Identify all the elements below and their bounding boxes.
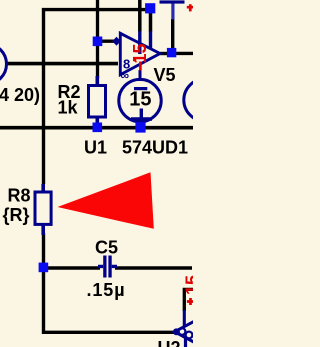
junction squares [39, 3, 177, 272]
V5 minus bar [134, 87, 147, 90]
U1 negative supply lead [139, 70, 142, 81]
svg-text:C5: C5 [95, 237, 118, 257]
wire op-amp output [160, 52, 168, 55]
U1 red pin dot [133, 58, 136, 61]
wire C5 left [44, 266, 101, 270]
wire U2 corner [184, 289, 193, 311]
wire output to right edge [172, 52, 193, 55]
wire x97 vertical [96, 0, 99, 78]
U2 pin stub [183, 310, 186, 327]
V5 plus sign [131, 109, 152, 130]
resistor R8 [35, 184, 51, 235]
U1 pin lines on top edge [140, 31, 151, 54]
wire op-amp inverting input [98, 40, 118, 43]
node C5 left [39, 263, 49, 273]
svg-text:4 20): 4 20) [0, 85, 40, 105]
blue stem below bar [171, 4, 174, 20]
U2 inner glyphs [179, 328, 186, 335]
svg-text:∞: ∞ [121, 69, 130, 83]
U2 apex pin dot [173, 328, 180, 335]
top terminal bar [160, 0, 185, 3]
wire x140 compensation pin [138, 0, 142, 32]
U1 inverting pin diamond [112, 37, 121, 46]
svg-text:.15µ: .15µ [87, 280, 126, 300]
source right edge circle [184, 79, 226, 121]
resistor R2 [89, 76, 106, 124]
red triangle probe [58, 172, 154, 229]
node R2 bottom [93, 123, 103, 133]
svg-text:{R}: {R} [3, 205, 30, 225]
wire ground rail y127 [0, 126, 193, 130]
source V5 [119, 79, 161, 129]
op-amp U2 [173, 275, 214, 347]
source V cut at left edge [0, 44, 7, 84]
node inverting input [93, 37, 103, 47]
svg-text:1k: 1k [58, 98, 79, 118]
capacitor C5 [98, 256, 117, 278]
svg-text:15: 15 [129, 89, 151, 111]
svg-text:R8: R8 [8, 185, 31, 205]
wire x171 from top bar [171, 19, 174, 50]
red pin plus top right corner [187, 4, 194, 11]
svg-text:15: 15 [183, 275, 194, 295]
U2 lower pin line [184, 337, 187, 347]
svg-text:574UD1: 574UD1 [122, 138, 188, 158]
wire long non-inverting input [6, 62, 118, 66]
svg-text:U1: U1 [84, 138, 107, 158]
op-amp U1 [112, 31, 160, 82]
wire C5 right [115, 266, 192, 270]
svg-text:U2: U2 [158, 338, 181, 347]
U1 red supply pin [139, 62, 142, 71]
wire x150 from top junction [149, 10, 153, 32]
svg-text:V5: V5 [154, 65, 176, 85]
svg-text:15: 15 [130, 43, 150, 63]
node V5 bottom [135, 122, 145, 132]
wire left vertical lower and bottom rail [44, 233, 175, 332]
node output [167, 48, 176, 57]
wire top rail [44, 10, 151, 184]
U2 red plus [187, 298, 194, 305]
node top [145, 3, 155, 13]
